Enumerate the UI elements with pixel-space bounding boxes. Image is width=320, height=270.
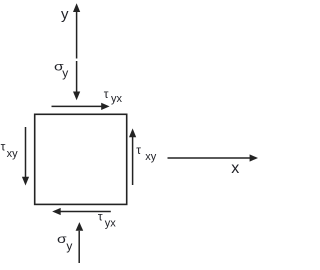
svg-text:y: y <box>61 6 69 23</box>
svg-text:yx: yx <box>105 218 117 230</box>
x axis arrow <box>168 154 259 161</box>
tau_xy right arrow (up) <box>129 128 136 185</box>
svg-text:xy: xy <box>7 148 19 160</box>
sigma_y bottom arrow (up) <box>76 222 84 263</box>
stress element square <box>35 114 127 204</box>
tau_yx bottom arrow (left) <box>52 208 111 215</box>
tau_yx top arrow (right) <box>52 103 110 110</box>
svg-text:y: y <box>66 239 72 253</box>
svg-text:τ: τ <box>1 140 6 154</box>
svg-text:τ: τ <box>104 87 109 101</box>
y axis arrow <box>73 3 80 58</box>
svg-text:xy: xy <box>145 151 157 163</box>
tau_xy left arrow (down) <box>22 127 29 186</box>
svg-text:τ: τ <box>98 210 103 224</box>
svg-text:x: x <box>231 160 239 177</box>
svg-text:yx: yx <box>111 93 123 105</box>
svg-text:y: y <box>62 66 68 80</box>
svg-text:τ: τ <box>136 143 141 157</box>
sigma_y top arrow (down) <box>73 61 80 100</box>
